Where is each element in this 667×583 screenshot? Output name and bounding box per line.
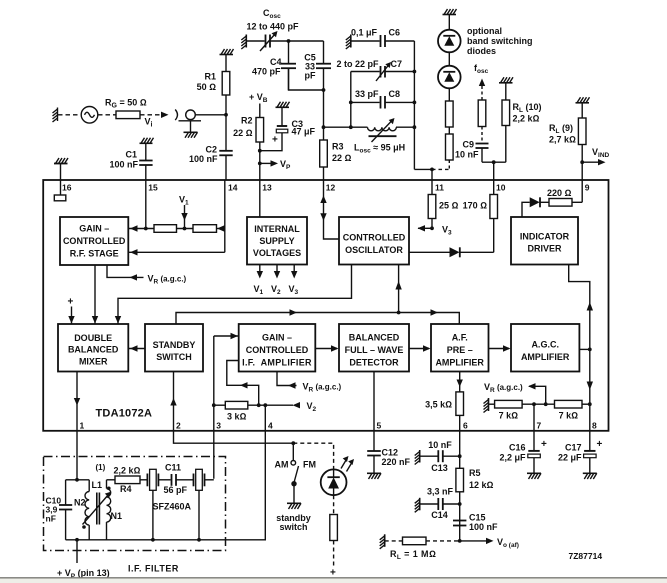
svg-text:+: + [330,568,336,579]
arrow (detector to A.F. pre-amplifier) [409,348,429,350]
wire (pin 9 to 220 ohm) [572,201,582,203]
svg-text:+: + [272,135,278,146]
svg-text:3 kΩ: 3 kΩ [227,412,247,422]
wire (tank line to Losc) [324,126,368,128]
svg-text:12: 12 [326,183,336,193]
switch AM/FM (standby) [291,443,299,503]
arrow (VP output) [260,162,272,164]
svg-text:22 Ω: 22 Ω [332,153,352,163]
svg-text:C6: C6 [389,28,401,38]
wire (C13 to pin 6 node) [443,455,460,457]
block BALANCED FULL-WAVE DETECTOR [339,324,409,372]
svg-text:C11: C11 [165,463,181,473]
pad (pin 16 substrate) [54,195,66,201]
wire (pin 9 into IC) [581,180,583,202]
svg-text:15: 15 [148,183,158,193]
wire (tank top) [66,479,90,481]
wire (dashed, ground to RL 1M) [385,540,403,542]
svg-text:16: 16 [62,183,72,193]
wire (ground to RL(10)) [505,83,507,100]
svg-text:7: 7 [537,421,542,431]
wire (C4/C5 bottom joining) [289,68,324,90]
capacitor C10 3,9 nF [59,505,72,510]
wire (ground to 7k left) [489,403,495,405]
wire (dashed, LED to resistor) [333,495,335,514]
svg-text:170 Ω: 170 Ω [463,201,488,211]
svg-text:SWITCH: SWITCH [156,352,192,362]
wire (pin 8 down) [589,404,591,451]
svg-text:10 nF: 10 nF [428,440,452,450]
svg-text:2,2 kΩ: 2,2 kΩ [513,114,540,124]
svg-text:SFZ460A: SFZ460A [153,502,192,512]
capacitor C14 3,3 nF [438,498,443,510]
diode D1 (band switching) [438,30,461,53]
wire (7k left to 7k right) [522,403,554,405]
wire (VP feed down) [76,540,78,563]
diode (oscillator to pin 10) [450,247,460,257]
capacitor C6 0,1 uF [381,35,386,47]
svg-text:STANDBY: STANDBY [153,340,196,350]
node (Losc right) [413,125,417,129]
ground (C12) [367,473,381,479]
svg-text:4: 4 [268,421,273,431]
wire (R3 to pin 12) [323,167,325,180]
capacitor C15 100 nF [453,521,466,526]
svg-text:INTERNAL: INTERNAL [254,224,300,234]
arrow (AGC bus down) [587,382,593,391]
node (R2/C3 junction) [258,149,262,153]
svg-text:C1: C1 [125,150,137,160]
resistor (band switching, upper) [446,101,454,127]
svg-text:C4: C4 [270,57,282,67]
wire (RL(9) to pin 9) [581,145,583,181]
wire (resonator 1 to C11) [158,479,170,481]
resistor 25 ohm (pin 11) [428,195,436,219]
svg-text:47 μF: 47 μF [292,127,316,137]
wire (pin 15 into IC) [145,180,147,229]
capacitor C9 10 nF [476,144,489,149]
ground (C6 left) [346,35,351,50]
node (resonator 2 bottom / pin 4 return) [197,538,201,542]
node (C8 right) [413,101,417,105]
ground (C13) [415,450,420,465]
capacitor C13 10 nF [438,450,443,462]
resistor (AGC chain left) [154,225,177,233]
arrow (pin 3 into I.F. amplifier) [214,335,239,337]
wire (C16 to ground) [533,458,535,473]
svg-text:AMPLIFIER: AMPLIFIER [435,357,484,367]
arrow (mixer to pin 1) [76,372,78,432]
wire (pin 12 into oscillator) [324,180,340,239]
svg-text:+: + [68,297,74,308]
ground (signal source RG) [53,108,58,123]
svg-text:10 nF: 10 nF [455,150,479,160]
resistor RL 1 Mohm [403,537,427,545]
svg-text:22 μF: 22 μF [558,453,582,463]
wire (ground to diode D1) [448,15,450,30]
capacitor C5 33 pF [316,64,331,68]
arrow (variable transformer) [83,492,111,525]
block A.G.C. AMPLIFIER [511,324,579,372]
arrow (pin 12 down) [320,213,326,221]
svg-text:220 nF: 220 nF [382,457,411,467]
LED (tuning indicator) [321,469,347,495]
svg-text:12 kΩ: 12 kΩ [469,480,494,490]
wire (C5 top lead) [323,41,325,64]
svg-text:BALANCED: BALANCED [68,345,119,355]
svg-text:6: 6 [463,421,468,431]
wire (R3 top from tank line) [323,127,325,140]
svg-text:C9: C9 [462,140,474,150]
wire (pin 5 to C12) [373,431,375,451]
svg-text:13: 13 [262,183,272,193]
capacitor C16 2,2 uF (electrolytic) [528,451,541,458]
arrow (V2 input) [293,402,301,408]
node (pin 10 external) [492,160,496,164]
svg-text:+: + [597,439,603,450]
svg-text:A.F.: A.F. [452,333,468,343]
wire (Losc to right vertical) [396,126,414,128]
wire (dashed, RG to input arrow) [140,114,162,116]
svg-text:14: 14 [228,183,238,193]
ground (input jack) [184,132,198,138]
block GAIN-CONTROLLED I.F. AMPLIFIER [239,324,316,372]
ground (C16) [527,473,541,479]
wire (tank bottom) [66,539,200,541]
node (R5 / C14) [458,502,462,506]
resistor RL (9) 2,7 kohm [578,118,586,145]
wire (C5 bottom down to tank line) [323,90,325,127]
ground (Cosc left) [241,35,246,50]
wire (dashed, resistor to C9) [481,127,483,144]
wire (C4 to bottom wire) [288,68,290,90]
resistor 3,5 kohm [456,392,464,416]
wire (I.F. amplifier gain control loop) [227,361,259,406]
transformer core [97,493,100,525]
resistor (f osc branch) [478,100,486,127]
svg-text:100 nF: 100 nF [189,154,218,164]
wire (C8 row right) [385,101,414,103]
svg-text:N2: N2 [74,498,86,508]
wire (diode to indicator driver) [522,202,530,217]
svg-text:3: 3 [216,421,221,431]
wire (resonator 2 to pin 3) [205,479,214,481]
svg-text:100 nF: 100 nF [109,160,138,170]
svg-text:8: 8 [592,421,597,431]
resistor (band switching, lower) [446,134,454,160]
block INDICATOR DRIVER [511,217,578,265]
wire (ground to C6) [351,40,380,42]
node (VP) [258,162,262,166]
svg-text:470 pF: 470 pF [252,67,281,77]
node (Losc left) [349,125,353,129]
node (C8 left) [349,101,353,105]
arrow (standby bus right) [431,309,439,315]
arrow (into R.F. stage, upper) [128,228,154,230]
node (pin 3 / 3k resistor) [212,403,216,407]
resistor R2 22 ohm [256,118,264,143]
svg-text:100 nF: 100 nF [469,522,498,532]
node (C4 top) [287,39,291,43]
ceramic resonator 2 (SFZ460A) [194,469,205,490]
wire (oscillator to diode) [409,251,450,253]
arrow (AGC bus up) [587,302,593,311]
wire (R.F. stage VR agc stub) [107,265,144,277]
svg-text:L1: L1 [92,480,103,490]
wire (pin 1 into filter) [76,431,78,480]
transformer L1 (N2 primary) [85,480,89,540]
wire (C8 row left) [351,101,380,103]
node (pin 4 / V2 line) [263,403,267,407]
arrow (into R.F. stage, lower) [128,251,225,253]
svg-text:diodes: diodes [467,46,496,56]
arrow (V3 into oscillator) [418,227,432,229]
wire (ground to RL(9)) [581,103,583,118]
wire (RL(10) to pin 10 node row) [505,126,507,163]
ceramic resonator 1 (SFZ460A) [147,469,158,490]
figure bottom rule [0,577,667,579]
svg-text:I.F. FILTER: I.F. FILTER [128,564,179,574]
svg-text:C2: C2 [205,145,217,155]
arrow (dashed, f osc up) [479,79,485,87]
resistor R4 2,2 kohm [115,476,140,484]
wire (Cosc to C4/C5 top) [270,40,324,42]
capacitor C3 47 uF (electrolytic) [276,126,288,133]
node (Vo af) [458,539,462,543]
svg-text:+: + [541,439,547,450]
ground (standby switch) [287,503,301,509]
arrow (V2 supply output) [276,265,278,277]
wire (C7 row right) [385,71,414,73]
svg-text:R3: R3 [332,142,344,152]
svg-text:switch: switch [279,522,307,532]
svg-text:2,7 kΩ: 2,7 kΩ [549,135,576,145]
wire (resonator 2 bottom) [198,490,200,540]
wire (I.F. amplifier VR agc stub) [277,372,297,386]
svg-text:C13: C13 [431,463,448,473]
svg-text:BALANCED: BALANCED [349,333,400,343]
wire (dashed, resistor to +) [333,541,335,567]
wire (C2 to pin 14) [225,155,227,180]
svg-text:GAIN –: GAIN – [79,224,109,234]
svg-text:AMPLIFIER: AMPLIFIER [521,352,570,362]
capacitor C17 22 uF (electrolytic) [584,451,597,458]
svg-text:TDA1072A: TDA1072A [96,408,153,420]
wire (pin 6 to C13 node) [459,431,461,541]
wire (pin 10 into IC) [493,180,495,252]
wire (ground to Cosc) [246,40,264,42]
block A.F. PRE-AMPLIFIER [431,324,489,372]
wire (VR agc output stub) [529,386,546,404]
arrow (VR agc input to R.F. stage) [130,274,138,280]
svg-text:R5: R5 [469,468,481,478]
node (pin 8 bus / 7k) [588,402,592,406]
svg-text:C7: C7 [391,59,403,69]
transformer L1 (N1 secondary) [107,480,111,540]
arrow (standby bus mid) [290,309,298,315]
resistor (LED series) [330,515,338,541]
arrow (pin 12 up) [320,195,326,203]
arrow (V3 supply output) [293,265,295,277]
svg-text:7 kΩ: 7 kΩ [499,411,519,421]
resistor 7 kohm (right) [555,400,583,408]
node (pin 11 external) [430,168,434,172]
winding polarity dots [107,487,111,491]
arrow (pin 2 to standby switch) [173,372,175,432]
svg-text:10: 10 [496,183,506,193]
resistor RG 50 ohm [116,111,140,119]
wire (node to C4) [288,41,290,64]
wire (D2 to R chain) [448,88,450,101]
svg-text:7 kΩ: 7 kΩ [559,411,579,421]
resistor 220 ohm [549,199,572,207]
svg-text:CONTROLLED: CONTROLLED [246,345,309,355]
wire (ground to C3) [281,107,283,126]
capacitor C12 220 nF [367,451,381,456]
wire (tank left vertical) [350,72,352,128]
node (V IND) [580,160,584,164]
svg-text:25 Ω: 25 Ω [439,201,459,211]
svg-text:3,5 kΩ: 3,5 kΩ [425,400,452,410]
capacitor C8 33 pF [381,96,386,109]
IC TDA1072A outline [43,180,608,431]
svg-text:MIXER: MIXER [79,356,108,366]
variable capacitor Cosc 12 to 440 pF [260,31,278,51]
wire (C10 branch top) [65,480,67,505]
node (pin 6 / C13) [458,454,462,458]
arrow (VR agc into I.F. amplifier) [288,382,296,388]
svg-text:(1): (1) [96,463,106,472]
wire (R2 to VP node / pin 13) [259,142,261,180]
wire (C7 row left) [351,71,380,73]
wire (7k right to pin 8 bus) [582,403,590,405]
svg-text:C12: C12 [382,447,399,457]
arrow (oscillator into mixer) [115,316,121,324]
wire (pin 7 down) [533,404,535,451]
wire (pin 4 down and to filter) [199,405,265,540]
wire (jack to R1 node) [195,114,226,116]
svg-text:220 Ω: 220 Ω [547,188,572,198]
resistor 7 kohm (left) [495,400,522,408]
arrow (VR agc output) [528,383,536,389]
svg-text:optional: optional [467,26,502,36]
variable capacitor C7 2 to 22 pF [376,62,391,81]
wire (between chain resistors) [448,127,450,134]
wire (R4 to resonator 1) [140,479,147,481]
wire (C6 to right vertical) [385,40,414,42]
wire (pin 11 node down to pin 11) [431,169,433,180]
arrow (R.F. stage into mixer) [94,265,96,324]
arrows (LED light emission) [341,456,354,472]
wire (ground to pin 16 pad) [60,164,62,196]
node (gain loop / V2 line) [257,403,261,407]
svg-text:56 pF: 56 pF [164,485,188,495]
wire (dashed, pin 11 node to diode chain) [432,168,449,170]
wire (chain mid) [177,228,194,230]
wire (ground to C1) [145,143,147,160]
node (VR agc divider) [544,402,548,406]
node (V3 / pin 11) [430,226,434,230]
svg-text:12 to 440 pF: 12 to 440 pF [247,22,300,32]
wire (dashed, standby node to LED) [293,443,333,469]
node (C5 bottom) [322,88,326,92]
arrow (I.F. amplifier to detector) [315,348,337,350]
wire (pin 3 vertical) [213,336,215,479]
diode (indicator driver) [530,197,549,207]
wire (C1 to pin 15) [145,165,147,180]
svg-text:VOLTAGES: VOLTAGES [253,248,301,258]
wire (pin 10 node row) [482,161,506,163]
svg-text:33 pF: 33 pF [355,89,379,99]
svg-text:FULL – WAVE: FULL – WAVE [345,345,404,355]
wire (node to pin 10) [493,162,495,180]
resistor (AGC chain right) [193,225,217,233]
svg-text:C14: C14 [431,510,448,520]
svg-text:2,2 kΩ: 2,2 kΩ [114,466,141,476]
wire (N1 top to R4) [107,479,116,481]
svg-text:DRIVER: DRIVER [527,244,562,254]
wire (indicator driver down to AGC bus) [569,265,590,405]
arrow (V1 down to chain) [184,205,186,229]
ground (pin 16) [54,158,68,164]
wire (dashed, source to RG) [98,114,116,116]
I.F. filter enclosure (dash-dot) [44,457,226,551]
ground (R1 top) [220,49,234,55]
wire (C17 to ground) [589,458,591,473]
wire (C3 to R2 junction) [260,133,282,151]
inductor Losc ~ 95 uH [368,118,397,142]
wire (tank right vertical) [413,41,415,169]
svg-text:OSCILLATOR: OSCILLATOR [345,245,403,255]
wire (diode to pin 10 line) [460,251,494,253]
wire (25 ohm to V3 node) [431,219,433,229]
wire (dashed, RL 1M to Vo node) [426,540,460,542]
wire (C12 to ground) [373,456,375,474]
node (tank bottom / VP feed) [75,538,79,542]
arrow (A.F. pre-amplifier to 3,5k) [459,372,461,392]
wire (pin 13 into supply box) [259,180,261,217]
node (chain mid) [183,227,187,231]
wire (3,5k to pin 6) [459,415,461,431]
svg-text:C8: C8 [389,89,401,99]
svg-text:5: 5 [377,421,382,431]
signal source Vi generator [81,107,98,124]
resistor R1 50 ohm [222,72,230,96]
svg-text:11: 11 [435,183,444,193]
node (C7 right) [413,70,417,74]
svg-text:R.F. STAGE: R.F. STAGE [70,249,119,259]
svg-text:pF: pF [305,71,316,81]
svg-text:2,2 μF: 2,2 μF [499,453,526,463]
node (R1 / input) [224,113,228,117]
wire (detector to pin 5) [373,372,375,432]
svg-text:AM: AM [275,460,289,470]
wire (pin 2 external to standby node) [174,431,294,443]
resistor 3 kohm [225,401,248,409]
resistor R3 22 ohm [320,140,328,167]
node (pin 7 divider) [532,402,536,406]
svg-text:9: 9 [585,183,590,193]
svg-text:2 to 22 pF: 2 to 22 pF [336,59,379,69]
svg-text:C16: C16 [509,443,526,453]
wire (R1 to node to C2) [225,95,227,151]
block DOUBLE BALANCED MIXER [58,324,128,372]
arrow (+ into mixer) [71,307,73,325]
node (standby switch top) [291,441,295,445]
svg-text:C17: C17 [565,443,582,453]
arrow (standby switch to mixer) [128,348,145,350]
arrow (gain control loop) [240,382,248,388]
